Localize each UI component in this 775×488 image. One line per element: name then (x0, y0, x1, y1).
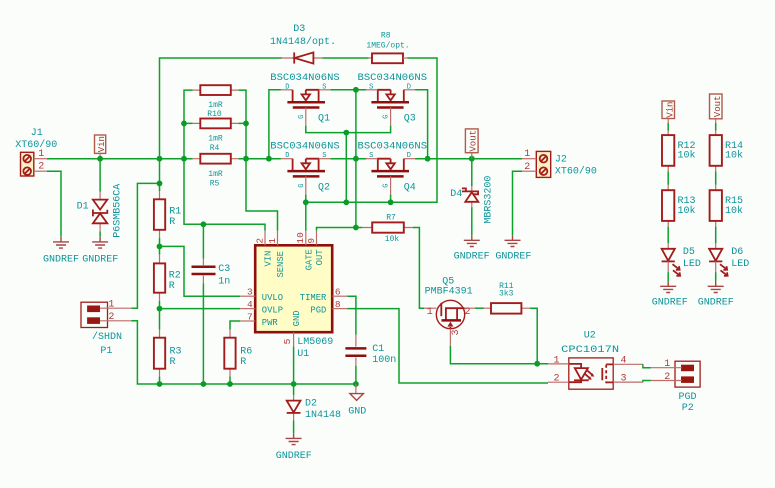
svg-text:GNDREF: GNDREF (82, 254, 118, 265)
P2 pin 1 (651, 367, 682, 369)
wire TIMER to C1 (347, 296, 356, 334)
svg-text:R4: R4 (210, 144, 220, 153)
svg-text:P2: P2 (682, 403, 694, 414)
transistor Q2 BSC034N06NS (270, 142, 340, 195)
transistor Q1 BSC034N06NS (270, 73, 340, 126)
svg-text:10k: 10k (678, 150, 696, 162)
svg-text:U1: U1 (297, 349, 309, 360)
resistor R15 (710, 185, 743, 227)
svg-text:R: R (169, 281, 175, 292)
wire Q1.S to Q3.S (330, 89, 366, 91)
svg-text:7: 7 (247, 311, 253, 322)
wire Q5.2 to R11 (475, 307, 484, 309)
node left rail bus (181, 156, 187, 162)
wire pin5 to gnd bus (293, 347, 295, 384)
P1 pin 2 (100, 320, 131, 322)
ground GNDREF (J2.2) (505, 235, 521, 246)
wire PGD pin8 runner to U2 (347, 309, 548, 383)
svg-text:6: 6 (335, 287, 341, 298)
wire Vin flag to R12 (667, 123, 669, 131)
svg-text:LED: LED (683, 259, 701, 270)
svg-text:3: 3 (247, 287, 253, 298)
svg-text:R5: R5 (210, 179, 220, 188)
svg-text:D2: D2 (305, 398, 317, 409)
svg-text:C1: C1 (372, 344, 384, 355)
wire J1.1 to shunt (Vin bus) (47, 158, 193, 160)
svg-text:S: S (369, 152, 373, 160)
wire gate rows connector (345, 133, 347, 203)
wire bottom gnd bus (160, 383, 356, 385)
node gnd bus C3 (201, 381, 207, 387)
svg-text:GATE: GATE (304, 249, 314, 270)
svg-text:Vout: Vout (469, 130, 479, 152)
shunt left rail (184, 90, 193, 159)
power flag Vin (left) (95, 135, 107, 159)
svg-text:D5: D5 (683, 247, 695, 258)
U1 pin 9 OUT (316, 231, 318, 246)
node B (OVLP tap) (157, 306, 163, 312)
U1 pin 4 OVLP (240, 308, 255, 310)
svg-text:J2: J2 (555, 155, 567, 166)
resistor R10 (193, 85, 239, 119)
wire R11 right down to U2.1 (530, 308, 537, 364)
U2 pin 4 (613, 363, 643, 365)
svg-text:PMBF4391: PMBF4391 (425, 287, 473, 298)
diode D4 MBRS3200 (450, 176, 494, 224)
svg-text:10k: 10k (385, 235, 400, 244)
svg-text:G: G (298, 184, 306, 188)
wire sense vertical x356 (355, 90, 357, 228)
svg-text:Vin: Vin (666, 102, 676, 118)
wire R13 to D5 (667, 227, 669, 243)
node right rail bus (243, 156, 249, 162)
svg-text:SENSE: SENSE (276, 251, 286, 278)
svg-text:R: R (240, 357, 246, 368)
diode D2 (287, 384, 341, 421)
svg-text:1mR: 1mR (208, 170, 223, 179)
svg-text:CPC1017N: CPC1017N (561, 345, 619, 356)
node bus/top-loop junction (157, 156, 163, 162)
node right rail R4 (243, 121, 249, 127)
wire node A (160, 238, 241, 296)
svg-text:GNDREF: GNDREF (276, 451, 312, 462)
svg-text:1: 1 (108, 299, 114, 310)
resistor R5 (on bus) (193, 154, 239, 189)
resistor R14 (710, 131, 743, 172)
U1 pin 10 GATE (305, 231, 307, 246)
node Q1 drain on bus (266, 156, 272, 162)
connector J1 (15, 128, 57, 176)
U1 pin 1 SENSE (277, 231, 279, 246)
svg-text:P1: P1 (100, 346, 112, 357)
ground GNDREF (J1.2) (53, 237, 69, 248)
ground GNDREF (D5) (660, 281, 676, 292)
svg-text:R1: R1 (169, 207, 181, 218)
svg-text:3: 3 (451, 329, 462, 335)
wire D1 bottom (99, 231, 101, 236)
svg-text:10k: 10k (725, 205, 743, 217)
svg-text:GND: GND (348, 407, 366, 418)
op-amp/IC U1 LM5069 (255, 245, 333, 360)
resistor R13 (662, 185, 696, 227)
svg-text:9: 9 (306, 238, 317, 244)
wire left rail to SENSE (VIN pin2 net) (184, 159, 265, 231)
ground GNDREF (D6) (708, 281, 724, 292)
wire Vout flag to R14 (715, 123, 717, 131)
U1 pin 5 GND (293, 332, 295, 346)
wire P1.2 down to gnd bus (131, 321, 159, 384)
resistor R6 (224, 330, 252, 377)
svg-text:/SHDN: /SHDN (92, 331, 122, 343)
wire D4 top (471, 159, 473, 187)
svg-text:Vout: Vout (713, 96, 723, 118)
svg-text:OUT: OUT (315, 249, 325, 265)
power flag Vin (right column) (662, 101, 676, 123)
node gate row1 (343, 130, 349, 136)
wire R3 bottom (159, 376, 161, 384)
node A (UVLO tap) (157, 244, 163, 250)
U2 pin 1 (548, 363, 569, 365)
node S row1 (353, 87, 359, 93)
resistor R7 (356, 214, 413, 245)
wire J2.2 to ground (513, 171, 523, 235)
svg-text:1: 1 (38, 149, 44, 160)
transistor Q5 PMBF4391 (424, 276, 475, 346)
svg-text:OVLP: OVLP (262, 306, 283, 316)
svg-text:R2: R2 (169, 271, 181, 282)
svg-text:R8: R8 (381, 32, 391, 41)
svg-text:100n: 100n (372, 355, 396, 366)
svg-text:Vin: Vin (97, 136, 107, 152)
resistor R3 (154, 309, 182, 377)
P1 pin 1 (100, 307, 131, 309)
J2 pin 1 stub (522, 158, 536, 160)
node gate row2 mid (343, 199, 349, 205)
svg-text:PWR: PWR (262, 318, 278, 328)
svg-text:BSC034N06NS: BSC034N06NS (358, 142, 428, 153)
wire D5 to ground (667, 272, 669, 281)
svg-text:1N4148: 1N4148 (305, 410, 341, 421)
svg-text:D6: D6 (731, 247, 743, 258)
connector P1 /SHDN (81, 302, 122, 357)
J2 screw pin 2 (540, 167, 548, 175)
svg-text:LED: LED (731, 259, 749, 270)
ground GNDREF (D1) (92, 237, 108, 248)
wire PWR pin7 to R6 (230, 321, 240, 330)
wire R14 to R15 (715, 172, 717, 185)
svg-text:1mR: 1mR (208, 134, 223, 143)
node gnd bus pin5/D2 (291, 381, 297, 387)
svg-text:GNDREF: GNDREF (495, 251, 531, 262)
svg-text:G: G (298, 115, 306, 119)
power flag Vout (right column) (710, 94, 724, 123)
U1 pin 3 UVLO (240, 295, 255, 297)
U1 pin 2 VIN (264, 231, 266, 246)
svg-text:Q1: Q1 (318, 114, 330, 125)
svg-text:1N4148/opt.: 1N4148/opt. (270, 36, 336, 48)
svg-text:2: 2 (108, 312, 114, 323)
svg-text:D: D (285, 152, 289, 160)
shunt right rail (238, 90, 246, 159)
svg-text:D4: D4 (450, 189, 462, 200)
svg-text:1MEG/opt.: 1MEG/opt. (366, 41, 409, 50)
svg-text:Q2: Q2 (318, 182, 330, 193)
svg-text:TIMER: TIMER (300, 293, 327, 303)
TVS diode D1 (77, 184, 124, 238)
J1 pin 1 stub (34, 158, 47, 160)
P2 pin 2 (651, 380, 682, 382)
wire Q1 drain drop (269, 90, 281, 159)
svg-text:D: D (407, 83, 411, 91)
svg-text:VIN: VIN (264, 251, 274, 267)
resistor R4 (193, 119, 239, 153)
wire D4 to ground (471, 207, 473, 235)
wire R6 bottom (229, 376, 231, 384)
svg-text:R7: R7 (386, 214, 396, 223)
power flag Vout (465, 129, 478, 159)
LED D6 (709, 243, 749, 276)
wire OUT pin9 to R7 (317, 228, 356, 231)
wire Q5 source down-right to U2.1 (450, 346, 548, 364)
node Vin junction (97, 156, 103, 162)
svg-text:PGD: PGD (310, 306, 326, 316)
J2 screw pin 1 (540, 155, 548, 163)
svg-text:Q3: Q3 (404, 113, 416, 124)
J1 screw pin 2 (23, 167, 31, 175)
svg-text:1: 1 (267, 238, 278, 244)
node Vout junction (469, 156, 475, 162)
svg-text:GNDREF: GNDREF (43, 254, 79, 265)
node left rail R4 (181, 121, 187, 127)
capacitor C1 (345, 335, 396, 366)
wire R1 top (159, 159, 161, 192)
resistor R1 (154, 191, 181, 238)
svg-text:D: D (407, 152, 411, 160)
wire node B to pin4 (160, 301, 241, 309)
svg-text:G: G (382, 184, 390, 188)
node C3 top (201, 221, 207, 227)
svg-text:D: D (285, 83, 289, 91)
svg-text:BSC034N06NS: BSC034N06NS (358, 73, 428, 84)
wire J1.2 down to ground (47, 171, 61, 236)
svg-text:2: 2 (553, 374, 559, 385)
wire R12 to R13 (667, 172, 669, 185)
node gnd bus C1 (353, 381, 359, 387)
wire Q2.S to Q4.S (bus) (330, 158, 366, 160)
U2 pin 3 (613, 381, 643, 383)
svg-text:P6SMB56CA: P6SMB56CA (112, 184, 123, 238)
node row2 S junction (353, 156, 359, 162)
connector P2 PGD (675, 361, 700, 414)
svg-text:GNDREF: GNDREF (454, 251, 490, 262)
wire R8 right down to gate row (391, 58, 437, 202)
node P1 tap on Vin chain (157, 181, 163, 187)
node R7 left (353, 225, 359, 231)
wire bus to J2 (472, 158, 522, 160)
ground GNDREF (D4) (464, 235, 480, 246)
svg-text:GND: GND (292, 310, 302, 326)
wire bus right of shunt to Q2 (238, 158, 281, 160)
svg-text:8: 8 (335, 299, 341, 310)
wire Q4 drain to bus right (415, 158, 472, 160)
svg-text:UVLO: UVLO (262, 293, 283, 303)
J2 pin 2 stub (522, 170, 536, 172)
svg-text:J1: J1 (31, 128, 43, 139)
svg-text:R: R (170, 357, 176, 368)
wire right rail to pin1 (246, 159, 278, 231)
wire C1 to gnd bus (355, 366, 357, 384)
optocoupler U2 CPC1017N (561, 330, 619, 389)
transistor Q3 BSC034N06NS (358, 73, 428, 126)
svg-text:1: 1 (524, 149, 530, 160)
node gate row2 Q2/pin10 (303, 199, 309, 205)
LED D5 (662, 243, 701, 276)
svg-text:4: 4 (247, 299, 253, 310)
svg-text:2: 2 (38, 162, 44, 173)
J1 screw pin 1 (23, 155, 31, 163)
svg-text:G: G (382, 115, 390, 119)
diode D3 (270, 24, 336, 64)
svg-text:C3: C3 (218, 264, 230, 275)
svg-text:LM5069: LM5069 (297, 337, 333, 348)
svg-text:2: 2 (464, 307, 470, 318)
U2 pin 2 (548, 381, 569, 383)
svg-text:S: S (369, 83, 373, 91)
svg-text:1: 1 (427, 307, 433, 318)
svg-text:GNDREF: GNDREF (652, 298, 688, 309)
node gnd bus R3 (157, 381, 163, 387)
wire D6 to ground (715, 272, 717, 281)
svg-text:3k3: 3k3 (499, 290, 514, 299)
wire D2 to ground (293, 420, 295, 433)
svg-text:XT60/90: XT60/90 (15, 139, 57, 151)
svg-text:1: 1 (553, 355, 559, 366)
svg-text:PGD: PGD (678, 392, 696, 403)
node gnd bus R6 (227, 381, 233, 387)
wire D1 top (99, 159, 101, 192)
svg-text:BSC034N06NS: BSC034N06NS (270, 73, 340, 84)
node U2 pin1 junction (534, 361, 540, 367)
wire GATE pin10 drop (305, 202, 307, 231)
resistor R2 (154, 246, 181, 301)
svg-text:2: 2 (664, 372, 670, 383)
wire Q3 drain drop to bus (415, 90, 427, 159)
wire P1.1 up to Vin tap (131, 183, 159, 308)
transistor Q4 BSC034N06NS (358, 142, 428, 195)
svg-text:XT60/90: XT60/90 (555, 165, 597, 177)
wire R7 right down to Q5 gate (413, 228, 425, 309)
power symbol GND (348, 384, 366, 418)
svg-text:GNDREF: GNDREF (698, 298, 734, 309)
svg-text:U2: U2 (584, 330, 596, 341)
svg-text:BSC034N06NS: BSC034N06NS (270, 142, 340, 153)
svg-text:D3: D3 (293, 24, 305, 35)
svg-text:10k: 10k (725, 150, 743, 162)
wire D3 to R8 (322, 57, 368, 59)
svg-text:D1: D1 (77, 202, 89, 213)
wire gate row2 (306, 195, 437, 203)
svg-text:3: 3 (620, 374, 626, 385)
resistor R8 (366, 32, 409, 64)
J1 pin 2 stub (34, 170, 47, 172)
svg-text:R: R (169, 217, 175, 228)
svg-text:2: 2 (524, 162, 530, 173)
svg-text:2: 2 (254, 238, 265, 244)
U1 pin 8 PGD (332, 308, 347, 310)
ground GNDREF (D2) (286, 433, 302, 444)
U1 pin 7 PWR (240, 320, 255, 322)
svg-text:5: 5 (282, 338, 293, 344)
svg-text:1: 1 (664, 359, 670, 370)
wire gate row1 (306, 126, 391, 133)
svg-text:10k: 10k (678, 205, 696, 217)
wire top loop (Vin to D3) (160, 58, 282, 159)
node Q3 drain on bus (425, 156, 431, 162)
resistor R11 (484, 282, 530, 314)
svg-text:S: S (322, 83, 326, 91)
wire U2.4 jog to P2.1 (643, 364, 651, 367)
svg-text:R6: R6 (240, 346, 252, 357)
connector J2 (536, 151, 597, 177)
wire U2.3 jog to P2.2 (643, 381, 651, 383)
svg-text:Q4: Q4 (404, 182, 416, 193)
svg-text:S: S (322, 152, 326, 160)
svg-text:MBRS3200: MBRS3200 (483, 176, 494, 224)
node gate row2 Q4 (388, 199, 394, 205)
resistor R12 (662, 131, 696, 172)
svg-text:10: 10 (295, 232, 306, 244)
svg-text:1n: 1n (218, 276, 230, 287)
svg-text:R3: R3 (170, 346, 182, 357)
wire R15 to D6 (715, 227, 717, 243)
capacitor C3 (192, 224, 231, 384)
svg-text:1mR: 1mR (208, 101, 223, 110)
svg-text:4: 4 (620, 355, 626, 366)
U1 pin 6 TIMER (332, 295, 347, 297)
